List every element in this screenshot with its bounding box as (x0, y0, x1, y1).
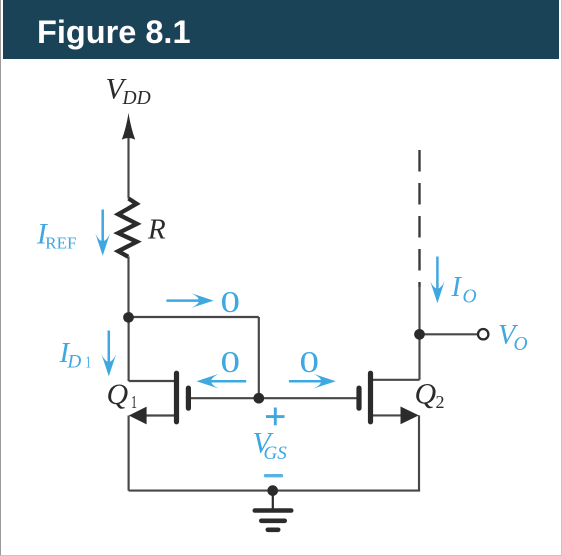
svg-text:I: I (451, 272, 463, 303)
wire: node A down to Q1 drain corner (128, 318, 130, 381)
node A junction dot (123, 312, 134, 323)
gate node junction dot (253, 393, 264, 404)
label VGS (253, 427, 288, 465)
IO arrow (blue down) (430, 257, 445, 304)
wire: IO dashed drain lead (418, 150, 420, 287)
label Q1 (107, 378, 138, 412)
zero-current arrow left (blue left) (197, 374, 247, 389)
label VGS plus (266, 408, 285, 426)
wire: Q2 drain up to output node (418, 334, 420, 380)
svg-text:1: 1 (131, 392, 137, 412)
svg-text:2: 2 (436, 392, 445, 412)
wire: Q2 source horizontal (373, 414, 402, 416)
label VDD (106, 73, 151, 110)
svg-text:D: D (67, 352, 82, 373)
transistor Q2 gate bar (356, 388, 361, 408)
VDD arrow (122, 113, 135, 140)
transistor Q1 source arrow (129, 407, 147, 425)
wire: Q1 source horizontal (145, 414, 175, 416)
svg-text:O: O (514, 334, 528, 355)
wire: Q1 drain horizontal (129, 380, 175, 382)
wire: Q2 source down to bottom rail (418, 415, 420, 490)
svg-text:0: 0 (221, 344, 241, 379)
svg-text:Q: Q (107, 378, 129, 411)
transistor Q1 gate bar (186, 388, 191, 408)
wire: IO solid drain lead (418, 285, 420, 334)
resistor R (118, 199, 137, 257)
wire: output node to VO terminal (420, 333, 479, 335)
label ID1 (59, 337, 92, 373)
VO terminal circle (478, 329, 488, 339)
wire: gate rail Q1 to Q2 (191, 397, 357, 399)
zero-current arrow right (blue right) (289, 374, 336, 389)
wire: node A to gate column (horizontal) (129, 316, 259, 318)
label IO (451, 272, 477, 308)
transistor Q1 channel bar (174, 373, 179, 422)
svg-text:GS: GS (264, 443, 288, 464)
svg-text:REF: REF (45, 234, 76, 253)
label VGS minus (266, 474, 282, 477)
svg-text:Q: Q (415, 378, 437, 411)
svg-text:1: 1 (86, 353, 92, 372)
ground (255, 491, 291, 530)
zero-current arrow top (blue right) (166, 293, 213, 308)
ID1 arrow (blue down) (102, 331, 117, 377)
IREF arrow (blue down) (95, 210, 110, 256)
svg-text:R: R (147, 214, 166, 246)
svg-text:DD: DD (122, 88, 151, 109)
wire: Q2 drain horizontal (373, 379, 420, 381)
wire: gate column vertical (258, 317, 260, 398)
wire: VDD rail above resistor (127, 133, 129, 199)
label IREF (36, 219, 76, 253)
transistor Q2 source arrow (401, 407, 419, 425)
wire: bottom rail (129, 490, 421, 492)
label Q2 (415, 378, 445, 413)
label VO (498, 320, 528, 355)
svg-text:O: O (463, 287, 477, 308)
header bar (3, 0, 560, 59)
svg-text:0: 0 (300, 344, 320, 379)
ground node junction dot (267, 485, 278, 496)
wire: Q1 source down to bottom rail (128, 416, 130, 491)
wire: resistor to node A (127, 257, 129, 319)
transistor Q2 channel bar (368, 373, 373, 422)
svg-text:0: 0 (221, 284, 241, 319)
output node junction dot (414, 329, 425, 340)
